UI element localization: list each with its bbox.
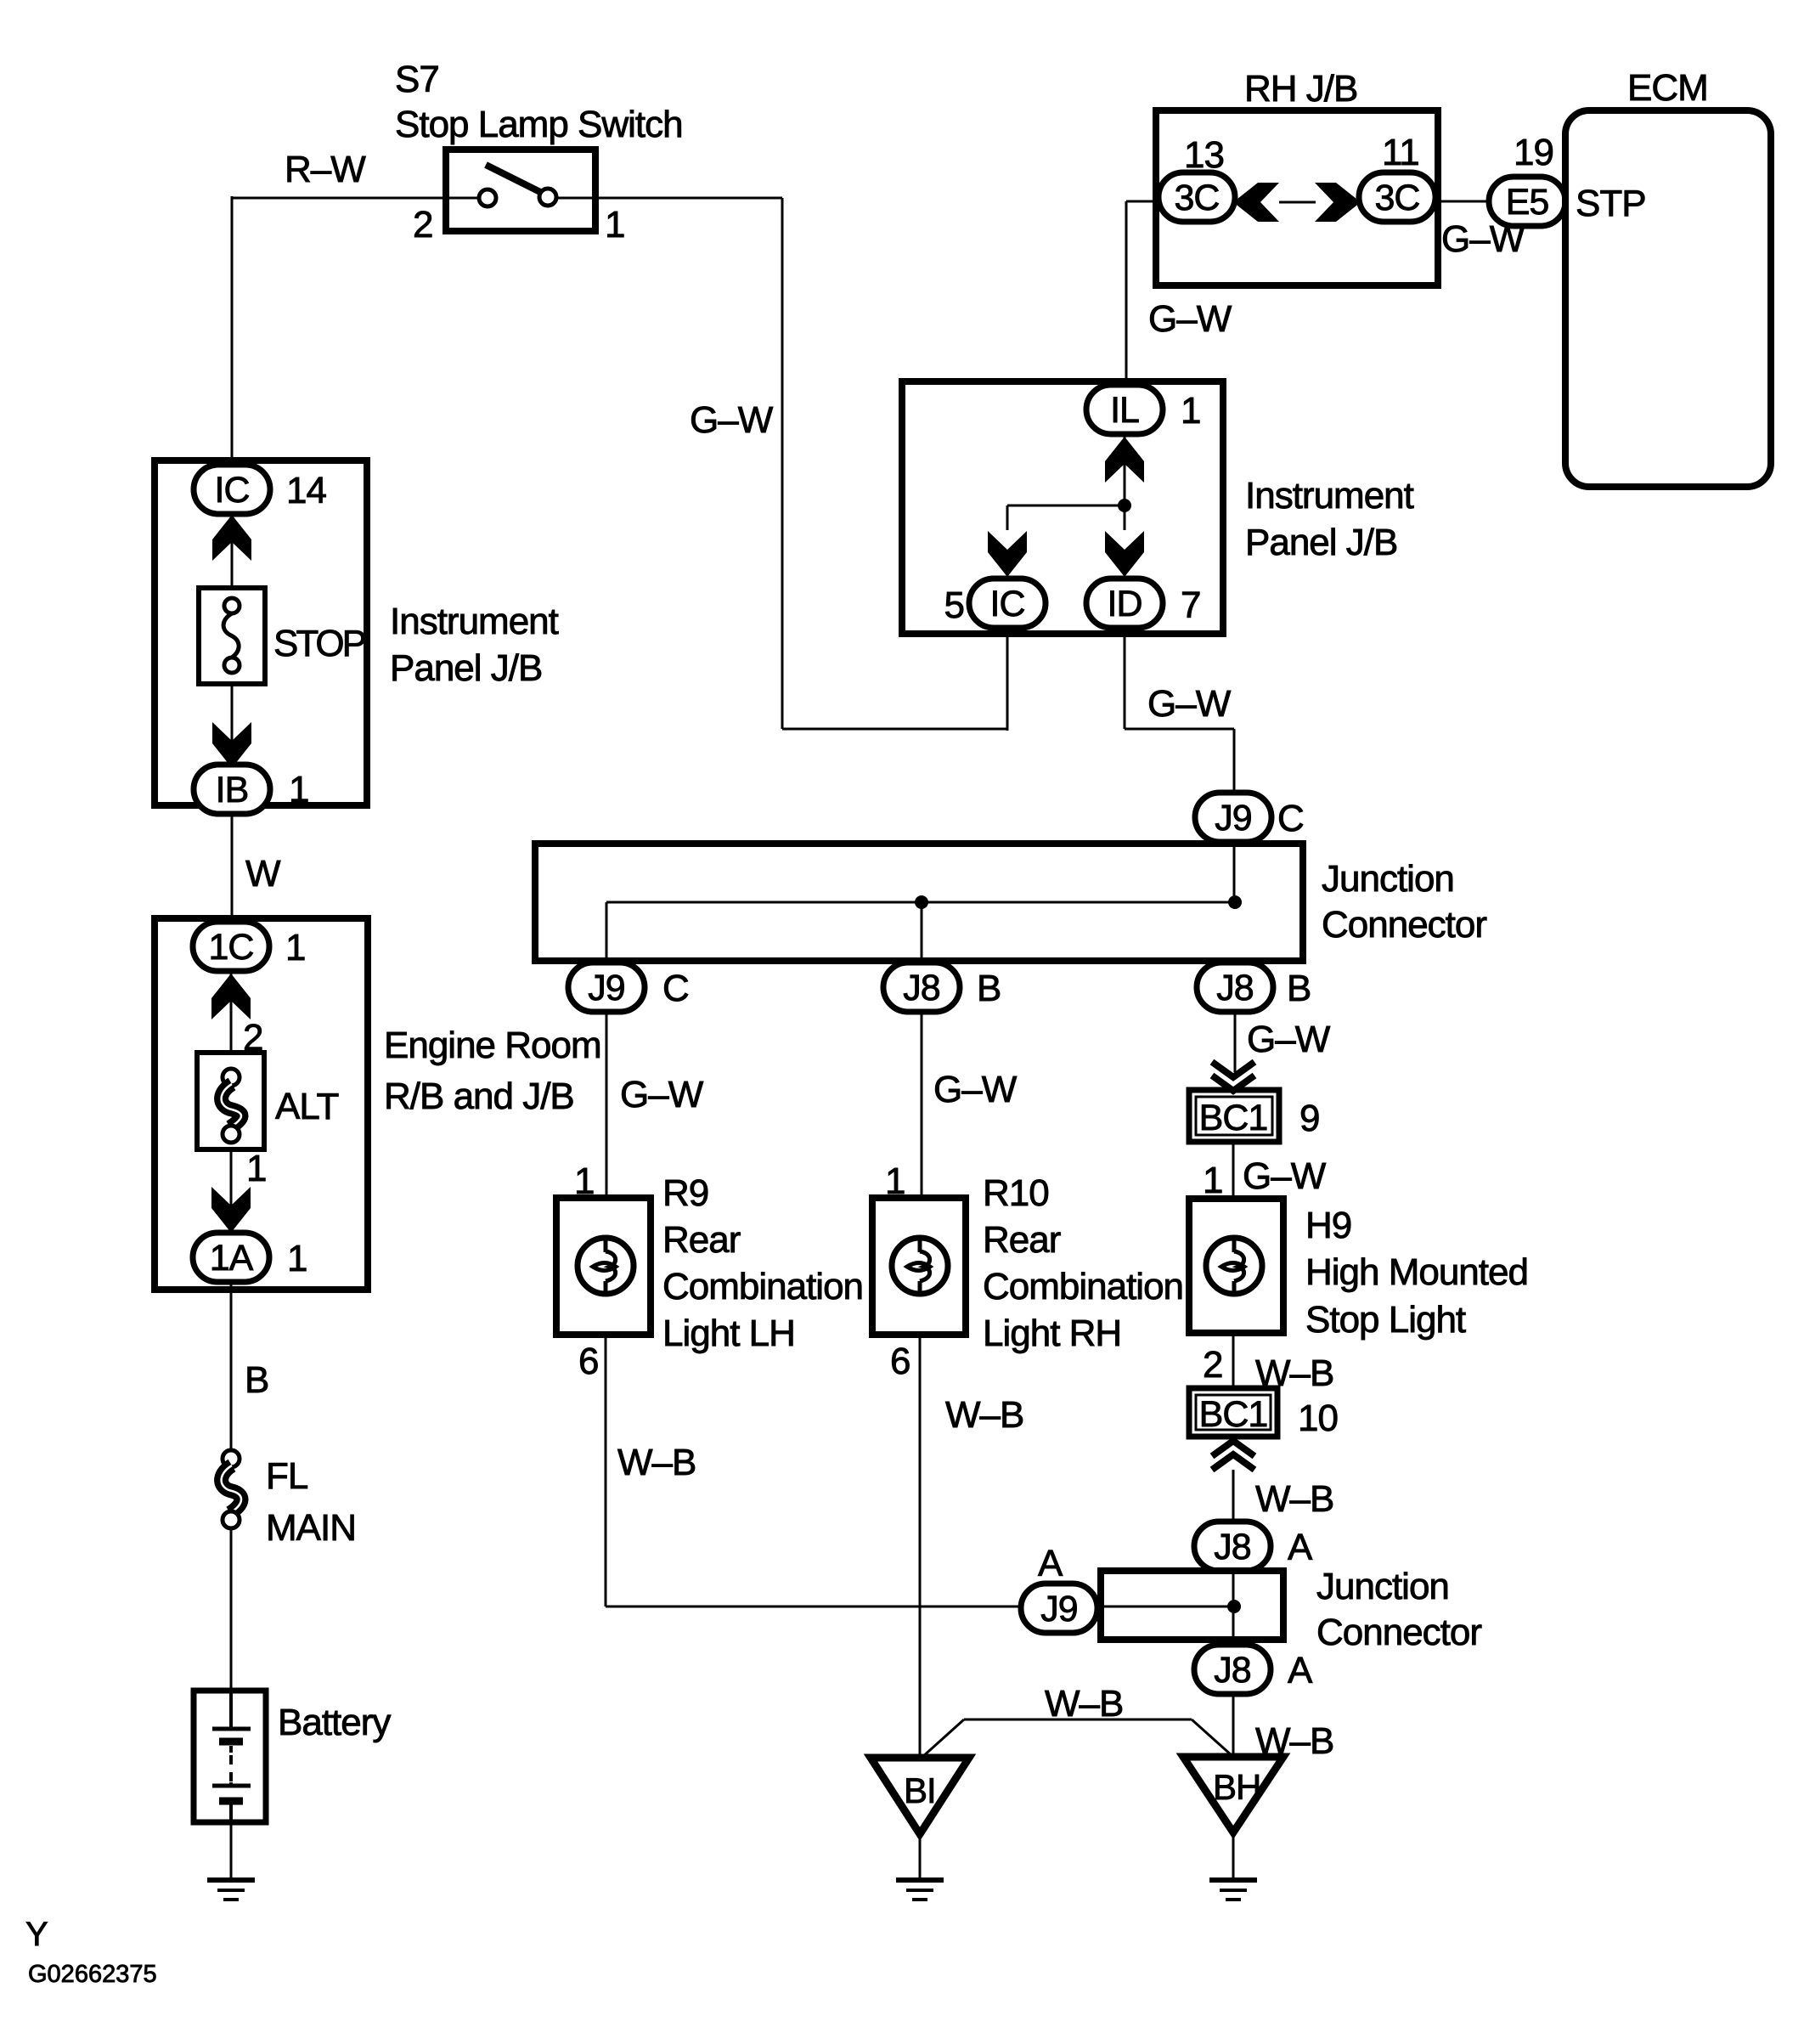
label 1 at IL <box>1181 390 1200 432</box>
label G-W at H9 <box>1243 1155 1327 1197</box>
wire G-W horizontal into IC pin 5 <box>782 628 1007 731</box>
connector chevrons out of BC1-10 <box>1212 1441 1254 1470</box>
connector J9-C top oval <box>1195 793 1271 842</box>
wire B from 1A pin 1 down to FL MAIN and battery <box>230 1280 233 1693</box>
wire G-W from 3C-11 to ECM E5 <box>1435 200 1491 203</box>
connector ID pin 7 oval <box>1086 579 1163 628</box>
svg-text:11: 11 <box>1382 132 1419 173</box>
label 14 <box>286 470 326 511</box>
label BC1 10 <box>1199 1394 1338 1439</box>
ground symbol under BH <box>1209 1880 1257 1900</box>
wire J9-C oval into junction connector bus <box>1233 840 1236 902</box>
wire G-W J8 to R10 rear combination light RH <box>921 1010 923 1198</box>
svg-text:3C: 3C <box>1175 178 1220 218</box>
wire W-B H9 pin 2 to BC1 pin 10 <box>1232 1331 1235 1390</box>
label G-W under J8 right <box>1247 1019 1331 1060</box>
ECM box <box>1565 110 1771 487</box>
svg-text:J8: J8 <box>1214 1650 1251 1691</box>
label R10 Rear Combination Light RH <box>983 1172 1183 1354</box>
battery cells <box>212 1691 251 1822</box>
svg-text:Combination: Combination <box>983 1266 1183 1307</box>
svg-text:Connector: Connector <box>1316 1612 1481 1653</box>
svg-text:3C: 3C <box>1375 178 1420 218</box>
svg-text:G–W: G–W <box>1247 1019 1331 1060</box>
connector 3C pin 11 oval <box>1359 172 1435 222</box>
label Engine Room R/B and J/B <box>384 1025 601 1117</box>
wire G-W from RH J/B 3C-13 down to IL pin 1 <box>1126 201 1159 387</box>
label 5 at IC <box>944 584 964 626</box>
label G-W under RH J/B <box>1148 298 1232 340</box>
wire G-W from ID pin 7 down to junction connector J9 <box>1125 628 1234 794</box>
svg-text:19: 19 <box>1514 132 1553 173</box>
svg-text:C: C <box>1277 798 1304 839</box>
arrow up into 1C <box>211 974 251 1019</box>
fuse STOP box <box>199 588 265 684</box>
label G02662375 <box>28 1961 157 1988</box>
switch S7 contacts and blade <box>446 165 595 206</box>
svg-text:1: 1 <box>1181 390 1200 432</box>
svg-text:Stop Light: Stop Light <box>1305 1299 1466 1341</box>
label 1 at 1C <box>285 927 305 968</box>
svg-text:Junction: Junction <box>1322 858 1454 900</box>
node junction dot inside Instrument Panel J/B <box>1118 499 1131 512</box>
battery box <box>194 1691 266 1822</box>
label BH <box>1213 1767 1260 1807</box>
arrow down to 1A <box>211 1187 251 1233</box>
svg-text:High Mounted: High Mounted <box>1305 1251 1528 1293</box>
svg-text:1: 1 <box>605 204 624 246</box>
label Battery <box>278 1702 391 1743</box>
svg-text:2: 2 <box>1203 1344 1222 1386</box>
ground BH triangle <box>1183 1757 1283 1832</box>
wire W-B linking BI and BH grounds <box>922 1719 1232 1758</box>
label A at J9-A <box>1038 1543 1063 1584</box>
fusible link FL MAIN element <box>222 1450 241 1528</box>
svg-text:G–W: G–W <box>1147 683 1232 725</box>
label 1 at 1A <box>287 1238 307 1279</box>
svg-text:R10: R10 <box>983 1172 1049 1214</box>
svg-text:BC1: BC1 <box>1199 1394 1268 1435</box>
svg-text:W–B: W–B <box>617 1442 696 1483</box>
label Junction Connector right <box>1322 858 1486 946</box>
label C at J9 top <box>1277 798 1304 839</box>
svg-text:Panel J/B: Panel J/B <box>390 647 542 689</box>
label 1 at switch <box>605 204 624 246</box>
node bus dot middle J8 <box>915 895 928 909</box>
connector IC pin 14 oval <box>194 465 270 514</box>
svg-text:Battery: Battery <box>278 1702 391 1743</box>
label STP <box>1576 183 1646 224</box>
svg-text:Rear: Rear <box>983 1219 1061 1261</box>
svg-text:6: 6 <box>578 1341 598 1382</box>
connector chevrons into BC1-9 <box>1212 1062 1254 1091</box>
svg-text:Instrument: Instrument <box>390 601 559 642</box>
svg-text:IB: IB <box>216 770 249 810</box>
fuse ALT box <box>197 1053 264 1149</box>
arrow right between 3C ovals <box>1315 183 1361 222</box>
label 11 <box>1382 132 1419 173</box>
junction connector long box <box>535 844 1303 961</box>
svg-text:J9: J9 <box>588 968 624 1008</box>
wire G-W J8-B down to BC1 pin 9 <box>1234 1010 1237 1072</box>
connector IC pin 5 oval <box>969 579 1046 628</box>
svg-text:G–W: G–W <box>620 1074 704 1115</box>
svg-text:Junction: Junction <box>1316 1566 1449 1607</box>
svg-text:1A: 1A <box>210 1238 254 1279</box>
label FL MAIN <box>266 1455 356 1549</box>
svg-text:IC: IC <box>215 470 250 511</box>
svg-text:Light RH: Light RH <box>983 1313 1121 1354</box>
svg-text:Instrument: Instrument <box>1245 475 1414 517</box>
svg-text:G–W: G–W <box>933 1069 1018 1110</box>
svg-text:Panel J/B: Panel J/B <box>1245 522 1397 563</box>
svg-text:E5: E5 <box>1506 182 1549 223</box>
svg-text:B: B <box>245 1359 268 1401</box>
wire W-B from R10 pin 6 down to ground BI <box>919 1333 922 1759</box>
node small junction dot <box>1227 1600 1241 1613</box>
svg-text:H9: H9 <box>1305 1205 1351 1246</box>
label R-W <box>285 149 366 190</box>
wire BI triangle to ground symbol <box>919 1834 922 1880</box>
svg-text:A: A <box>1288 1527 1313 1568</box>
lamp H9 high mounted stop light box <box>1189 1199 1283 1333</box>
label A at J8-A bottom <box>1288 1650 1313 1691</box>
wire junction connector internal bus <box>606 902 1235 964</box>
label W-B below H9 <box>1255 1352 1333 1394</box>
node bus dot right J8 <box>1228 895 1242 909</box>
svg-text:J9: J9 <box>1215 798 1251 838</box>
wire W-B BC1-10 down to J8-A <box>1232 1437 1235 1523</box>
connector J8-A top oval <box>1194 1522 1271 1571</box>
label G-W on switch drop wire <box>690 399 774 441</box>
svg-text:1: 1 <box>885 1160 905 1202</box>
label R9 Rear Combination Light LH <box>662 1172 863 1354</box>
label 1 at H9 <box>1203 1160 1222 1201</box>
svg-text:J8: J8 <box>903 968 940 1008</box>
svg-text:B: B <box>977 968 1001 1009</box>
connector J8-B right oval <box>1197 963 1273 1012</box>
label Instrument Panel J/B middle <box>1245 475 1414 563</box>
label 6 at R9 <box>578 1341 598 1382</box>
svg-text:A: A <box>1038 1543 1063 1584</box>
label G-W under J8 middle <box>933 1069 1018 1110</box>
svg-text:J9: J9 <box>1040 1589 1077 1629</box>
label G-W below ID <box>1147 683 1232 725</box>
label Instrument Panel J/B left <box>390 601 559 689</box>
svg-text:Engine Room: Engine Room <box>384 1025 601 1066</box>
svg-text:C: C <box>662 968 689 1009</box>
wire battery to ground <box>230 1821 233 1880</box>
wire G-W J9 to R9 rear combination light LH <box>606 1010 608 1198</box>
label B wire <box>245 1359 268 1401</box>
arrow down to IC pin 5 <box>988 531 1027 577</box>
svg-text:G02662375: G02662375 <box>28 1961 157 1988</box>
svg-text:IL: IL <box>1110 390 1139 431</box>
label B at J8 middle <box>977 968 1001 1009</box>
junction-block left Instrument Panel J/B box <box>155 460 367 805</box>
junction-block Engine Room R/B and J/B box <box>155 918 368 1290</box>
svg-text:Light LH: Light LH <box>662 1313 795 1354</box>
svg-text:J8: J8 <box>1216 968 1254 1008</box>
label S7 Stop Lamp Switch <box>395 59 683 145</box>
wire inside left J/B from IC oval through STOP fuse to IB oval <box>231 512 234 766</box>
svg-text:BC1: BC1 <box>1199 1098 1268 1138</box>
connector IB pin 1 oval <box>194 765 270 814</box>
connector 3C pin 13 oval <box>1159 172 1235 222</box>
wire small junction connector internals <box>1096 1569 1234 1646</box>
connector 1A pin 1 oval <box>193 1233 269 1282</box>
connector 1C pin 1 oval <box>193 922 269 971</box>
label 2 at H9 <box>1203 1344 1222 1386</box>
svg-text:B: B <box>1287 968 1311 1009</box>
svg-text:W–B: W–B <box>1255 1478 1333 1520</box>
svg-text:Connector: Connector <box>1322 904 1486 946</box>
svg-text:MAIN: MAIN <box>266 1507 356 1549</box>
svg-text:BH: BH <box>1213 1767 1260 1807</box>
connector J8-A bottom oval <box>1194 1645 1271 1694</box>
svg-text:2: 2 <box>413 204 432 246</box>
svg-text:Rear: Rear <box>662 1219 741 1261</box>
label ECM <box>1627 67 1708 109</box>
svg-text:Y: Y <box>25 1916 48 1953</box>
svg-text:FL: FL <box>266 1455 308 1497</box>
label STOP <box>273 623 366 664</box>
svg-text:RH J/B: RH J/B <box>1244 68 1357 110</box>
svg-text:W–B: W–B <box>1045 1683 1123 1725</box>
label W-B above J8-A <box>1255 1478 1333 1520</box>
svg-text:BI: BI <box>904 1770 936 1810</box>
lamp R9 rear combination light LH box <box>556 1198 651 1335</box>
svg-text:5: 5 <box>944 584 964 626</box>
label C at J9 bottom <box>662 968 689 1009</box>
label G-W under J9 left <box>620 1074 704 1115</box>
svg-text:14: 14 <box>286 470 326 511</box>
label W wire <box>245 853 281 895</box>
svg-text:G–W: G–W <box>690 399 774 441</box>
connector J9-A oval <box>1021 1584 1097 1633</box>
label H9 High Mounted Stop Light <box>1305 1205 1528 1341</box>
label W-B above BH <box>1255 1720 1333 1762</box>
svg-text:J8: J8 <box>1214 1527 1251 1567</box>
switch S7 stop lamp switch box <box>446 150 595 231</box>
svg-text:Stop Lamp Switch: Stop Lamp Switch <box>395 104 683 145</box>
label B at J8 right <box>1287 968 1311 1009</box>
ground symbol under BI <box>896 1880 944 1900</box>
connector J8-B middle oval <box>883 963 960 1012</box>
svg-text:ID: ID <box>1108 584 1142 624</box>
svg-text:W: W <box>245 853 281 895</box>
junction connector small box <box>1101 1571 1283 1640</box>
svg-text:R–W: R–W <box>285 149 366 190</box>
label 6 at R10 <box>890 1341 910 1382</box>
connector IL pin 1 oval <box>1086 385 1163 434</box>
svg-text:6: 6 <box>890 1341 910 1382</box>
wire inside Engine Room box through ALT <box>230 969 233 1234</box>
label A at J8-A top <box>1288 1527 1313 1568</box>
lamp R10 bulb <box>892 1238 948 1294</box>
svg-text:W–B: W–B <box>945 1394 1023 1436</box>
connector E5 pin 19 oval <box>1489 177 1565 226</box>
label 19 <box>1514 132 1553 173</box>
svg-text:G–W: G–W <box>1243 1155 1327 1197</box>
wire W-B from R9 pin 6 to junction connector J9-A <box>606 1333 1019 1606</box>
label 7 at ID <box>1181 584 1200 626</box>
svg-text:G–W: G–W <box>1441 218 1525 260</box>
wire W-B J8-A bottom to ground BH <box>1232 1692 1235 1758</box>
connector BC1 pin 10 box <box>1189 1388 1277 1437</box>
lamp R10 rear combination light RH box <box>872 1198 966 1335</box>
svg-text:G–W: G–W <box>1148 298 1232 340</box>
label Junction Connector bottom <box>1316 1566 1481 1653</box>
svg-text:Combination: Combination <box>662 1266 863 1307</box>
label 1 below ALT <box>246 1148 266 1189</box>
wire W from IB pin 1 to Engine Room 1C pin 1 <box>231 812 234 923</box>
label 1 at IB <box>289 769 308 810</box>
svg-text:1: 1 <box>574 1160 594 1202</box>
wire BH triangle to ground symbol <box>1232 1832 1235 1880</box>
svg-text:S7: S7 <box>395 59 439 100</box>
svg-text:1: 1 <box>287 1238 307 1279</box>
ground BI triangle <box>871 1758 969 1834</box>
svg-text:A: A <box>1288 1650 1313 1691</box>
connector J9-C bottom oval <box>568 963 645 1012</box>
fuse STOP element <box>223 598 240 673</box>
svg-text:ECM: ECM <box>1627 67 1708 109</box>
wire inside middle J/B: IL branch to IC and ID <box>1007 432 1125 530</box>
arrow up into IL <box>1105 437 1144 483</box>
svg-text:1C: 1C <box>209 927 254 968</box>
lamp R9 bulb <box>578 1238 634 1294</box>
svg-text:1: 1 <box>1203 1160 1222 1201</box>
label 1 at R10 <box>885 1160 905 1202</box>
junction-block RH J/B box <box>1156 110 1438 285</box>
label Y page marker <box>25 1916 48 1953</box>
arrow down to ID pin 7 <box>1105 531 1144 577</box>
label W-B under R10 <box>945 1394 1023 1436</box>
ground symbol under battery <box>207 1880 255 1900</box>
junction-block middle Instrument Panel J/B box <box>902 381 1223 634</box>
wire R-W from stop lamp switch pin 2 to Instrument Panel J/B <box>232 196 446 466</box>
svg-text:STOP: STOP <box>273 623 366 664</box>
svg-text:9: 9 <box>1299 1098 1319 1139</box>
arrow up into IC <box>212 515 251 561</box>
svg-text:ALT: ALT <box>275 1086 339 1127</box>
label W-B near BI-BH link <box>1045 1683 1123 1725</box>
svg-text:10: 10 <box>1298 1397 1338 1439</box>
svg-text:R9: R9 <box>662 1172 708 1214</box>
label 2 at ALT <box>243 1017 262 1059</box>
svg-text:1: 1 <box>285 927 305 968</box>
svg-text:R/B and J/B: R/B and J/B <box>384 1076 574 1117</box>
svg-text:IC: IC <box>990 584 1025 624</box>
wire switch pin 1 to vertical G-W drop <box>595 198 782 729</box>
label ALT <box>275 1086 339 1127</box>
svg-text:1: 1 <box>246 1148 266 1189</box>
arrow left between 3C ovals <box>1233 183 1279 222</box>
label BI <box>904 1770 936 1810</box>
label 2 at switch <box>413 204 432 246</box>
connector BC1 pin 9 box <box>1189 1090 1279 1142</box>
fusible link ALT element <box>222 1069 241 1143</box>
svg-text:7: 7 <box>1181 584 1200 626</box>
label 1 at R9 <box>574 1160 594 1202</box>
svg-text:STP: STP <box>1576 183 1646 224</box>
label W-B left of R9 drop <box>617 1442 696 1483</box>
wire G-W BC1-9 to H9 high mounted stop light pin 1 <box>1232 1142 1235 1200</box>
arrow down to IB <box>212 722 251 768</box>
label RH J/B <box>1244 68 1357 110</box>
label 13 <box>1184 134 1224 176</box>
label G-W under E5 <box>1441 218 1525 260</box>
label BC1 9 <box>1199 1098 1320 1139</box>
wire inside RH J/B between arrows <box>1279 201 1316 204</box>
lamp H9 bulb <box>1206 1238 1262 1294</box>
svg-text:1: 1 <box>289 769 308 810</box>
